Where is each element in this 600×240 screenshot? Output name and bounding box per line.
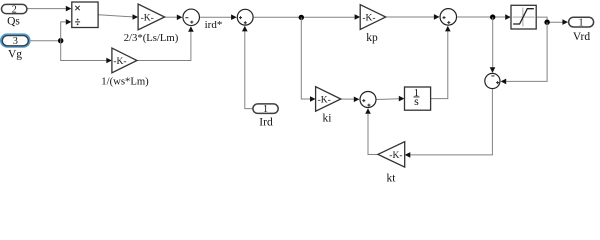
wire saturation to junction and outport Vrd [537,17,568,25]
node junction before saturation [490,14,495,19]
wire junction to divide in2 [61,19,72,41]
node junction after saturation [544,20,549,25]
wire junction to gain ki [301,17,315,101]
wire sum S4 to integrator [377,96,405,102]
svg-text:ki: ki [323,112,332,124]
wire gain kp to sum S3 [386,14,440,20]
wire gain 2/3 to sum S1 [165,15,183,21]
wire gain ki to sum S4 [341,97,360,103]
wire junction to gain 1/(ws*Lm) [61,41,112,64]
sum S1 [183,9,200,26]
gain kt [378,142,405,185]
node junction Vg [58,38,63,43]
gain ki [316,87,341,125]
svg-text:-K-: -K- [113,57,126,67]
outport 1 Vrd [569,17,594,43]
wire gain 1/(ws*Lm) to sum S1 bottom [137,26,194,60]
svg-text:Ird: Ird [259,117,273,129]
svg-text:ird*: ird* [205,19,223,31]
svg-text:3: 3 [13,36,18,47]
wire gain kt to sum S4 bottom [365,108,378,154]
sum S3 [440,9,457,26]
wire integrator to sum S3 bottom [431,26,451,99]
gain 1/(ws*Lm) [101,48,149,88]
wire junction to sum S5 top [490,17,496,73]
wire Qs to divide in1 [28,6,72,12]
node label ird* [205,19,223,31]
sum S4 [360,92,376,108]
svg-text:kt: kt [387,172,397,183]
saturation block [511,5,536,29]
wire junction to sum S5 right [501,22,547,84]
svg-text:Vg: Vg [8,49,22,61]
wire sum S5 to gain kt [405,89,493,158]
svg-text:2/3*(Ls/Lm): 2/3*(Ls/Lm) [124,32,179,44]
sum S5 [485,73,500,88]
sum S2 [237,9,253,25]
wire divide out to gain 2/3 [99,14,139,20]
svg-text:Qs: Qs [7,16,20,28]
wire sum S1 to sum S2 [200,14,237,20]
integrator 1/s [405,87,431,110]
svg-text:kp: kp [366,32,378,44]
svg-text:Vrd: Vrd [573,31,590,43]
inport 1 Ird [253,104,278,129]
wire sum S3 to saturation [457,14,511,20]
svg-text:-K-: -K- [141,13,154,23]
svg-text:2: 2 [12,4,17,15]
svg-text:-K-: -K- [362,13,375,23]
svg-text:1/(ws*Lm): 1/(ws*Lm) [101,76,149,88]
gain 2/3*(Ls/Lm) [124,4,179,44]
inport 3 Vg selected [0,33,31,60]
svg-text:-K-: -K- [318,95,331,105]
svg-text:s: s [414,94,419,108]
gain kp [360,5,386,44]
wire sum S2 to gain kp [254,14,361,20]
svg-text:1: 1 [263,104,268,115]
svg-text:-K-: -K- [389,151,402,161]
divide block [72,2,98,28]
wire Vg to junction [29,40,61,42]
inport 2 Qs [2,4,27,27]
svg-text:1: 1 [579,18,584,29]
wire Ird to sum S2 bottom [242,26,252,109]
node junction after S2 [299,15,304,20]
